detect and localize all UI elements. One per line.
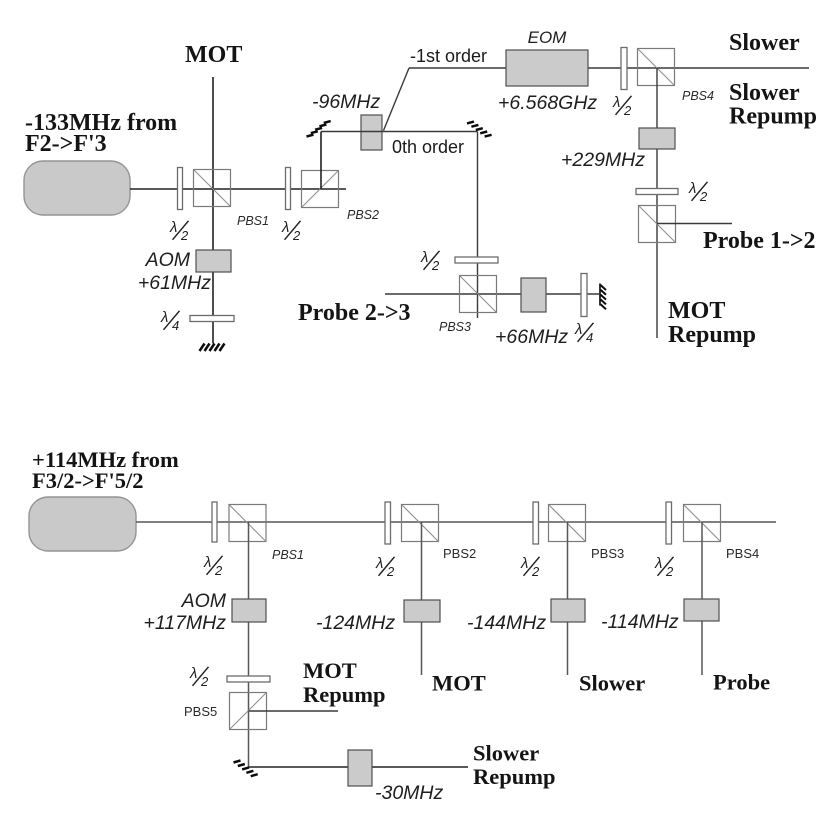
svg-text:MOT: MOT <box>432 671 486 696</box>
wire Probe 1->2 output <box>657 223 732 225</box>
wire -1st order diagonal <box>384 68 410 131</box>
label -133MHz from F2->F'3 <box>25 110 177 157</box>
svg-text:λ: λ <box>375 555 383 572</box>
label PBS4 (bottom) <box>726 546 759 561</box>
label 0th order <box>392 137 464 157</box>
waveplate WPb4 half-wave <box>666 502 672 544</box>
svg-text:4: 4 <box>586 330 593 345</box>
label -1st order <box>410 46 487 66</box>
svg-text:-96MHz: -96MHz <box>312 91 381 113</box>
mirror M5 (45deg bottom left) <box>234 761 258 777</box>
waveplate WPb1 half-wave <box>212 502 217 542</box>
wire MOT Repump output (bottom) <box>249 710 339 712</box>
label +6.568GHz <box>498 92 597 114</box>
AOM A2 -96MHz <box>361 115 382 150</box>
label lambda/2 (WP2) <box>281 219 301 243</box>
wire PBS4 down <box>656 68 658 338</box>
waveplate WP2 half-wave <box>286 168 291 210</box>
label Probe 2->3 <box>298 300 411 326</box>
label PBS1 <box>237 214 269 228</box>
svg-text:-30MHz: -30MHz <box>375 782 444 804</box>
svg-text:F3/2->F'5/2: F3/2->F'5/2 <box>32 468 144 493</box>
wire main beam L2 <box>136 521 776 523</box>
svg-text:Probe 2->3: Probe 2->3 <box>298 300 411 326</box>
svg-text:λ: λ <box>169 219 177 236</box>
wire 0th order horizontal <box>321 131 478 133</box>
svg-text:λ: λ <box>520 555 528 572</box>
svg-text:2: 2 <box>623 103 632 118</box>
laser L1 (-133MHz master) <box>24 161 130 215</box>
wire PBS2 down <box>421 522 423 675</box>
label PBS2 (bottom) <box>443 546 476 561</box>
label Slower (bottom output) <box>579 671 645 696</box>
wire PBS3 down <box>567 522 569 675</box>
label -30MHz <box>375 782 444 804</box>
svg-text:λ: λ <box>612 94 620 111</box>
AOM A4 +66MHz <box>521 278 546 312</box>
svg-text:2: 2 <box>180 228 189 243</box>
label Probe 1->2 <box>703 228 816 254</box>
svg-text:+229MHz: +229MHz <box>561 149 645 171</box>
svg-text:-144MHz: -144MHz <box>467 612 546 634</box>
waveplate WPb2 half-wave <box>385 502 391 544</box>
label MOT Repump (top section) <box>668 298 756 348</box>
label PBS3 (bottom) <box>591 546 624 561</box>
svg-text:+6.568GHz: +6.568GHz <box>498 92 597 114</box>
label lambda/2 (above PBS5) <box>189 665 209 689</box>
svg-text:Slower: Slower <box>473 741 539 766</box>
svg-text:PBS1: PBS1 <box>237 214 269 228</box>
PBS2 cube (top) <box>302 171 339 208</box>
svg-text:2: 2 <box>292 228 301 243</box>
label lambda/2 (WPb4) <box>654 555 674 579</box>
label MOT (top output) <box>185 42 242 68</box>
svg-text:MOT: MOT <box>303 658 357 683</box>
svg-text:Probe 1->2: Probe 1->2 <box>703 228 816 254</box>
label lambda/2 (WP5) <box>420 249 440 273</box>
waveplate WP quarter-wave (MOT arm) <box>190 316 234 322</box>
wire main beam L1 <box>130 188 346 190</box>
label AOM +61MHz <box>138 249 211 294</box>
PBS2 cube (bottom) <box>402 505 439 542</box>
svg-text:-114MHz: -114MHz <box>601 611 679 633</box>
AOM A1 +61MHz <box>196 250 231 272</box>
AOM B5 -30MHz <box>348 750 372 786</box>
label MOT Repump (bottom) <box>303 658 386 707</box>
wire 0th order vertical down to PBS3 <box>477 132 479 319</box>
waveplate WPb3 half-wave <box>533 502 539 544</box>
svg-text:λ: λ <box>160 309 168 326</box>
svg-text:PBS2: PBS2 <box>347 208 379 222</box>
label -114MHz <box>601 611 679 633</box>
svg-text:-1st order: -1st order <box>410 46 487 66</box>
svg-text:AOM: AOM <box>181 590 227 612</box>
svg-text:λ: λ <box>281 219 289 236</box>
waveplate WP4 half-wave (horizontal) <box>636 189 678 195</box>
wire MOT beam vertical <box>212 77 214 344</box>
laser L2 (+114MHz master) <box>29 497 136 551</box>
label Probe (bottom output) <box>713 670 770 695</box>
label MOT (bottom output) <box>432 671 486 696</box>
waveplate WP3 half-wave (after EOM) <box>621 48 627 90</box>
mirror M1 (retro below MOT arm) <box>200 344 225 352</box>
wire PBS2 up to mirror <box>320 132 322 190</box>
svg-text:λ: λ <box>203 554 211 571</box>
svg-text:λ: λ <box>189 665 197 682</box>
waveplate WP6 quarter-wave <box>581 274 587 317</box>
PBS cube (Probe 1->2) <box>639 206 676 243</box>
svg-text:+66MHz: +66MHz <box>495 326 568 348</box>
svg-text:Slower: Slower <box>579 671 645 696</box>
label PBS5 <box>184 704 217 719</box>
PBS4 cube (bottom) <box>684 505 721 542</box>
svg-text:PBS3: PBS3 <box>439 320 471 334</box>
label lambda/2 (WP1) <box>169 219 189 243</box>
svg-text:MOT: MOT <box>668 298 725 324</box>
wire -1st order beam to EOM/PBS4 <box>409 67 809 69</box>
mirror M2 (45deg above PBS2) <box>307 121 331 136</box>
AOM B2 -124MHz <box>404 600 440 622</box>
svg-text:Repump: Repump <box>473 764 556 789</box>
AOM A3 +229MHz <box>639 128 675 149</box>
svg-text:2: 2 <box>431 258 440 273</box>
svg-text:2: 2 <box>386 564 395 579</box>
svg-text:+117MHz: +117MHz <box>143 612 226 634</box>
label AOM +117MHz <box>143 590 226 634</box>
PBS1 cube (bottom) <box>229 505 266 542</box>
label +66MHz <box>495 326 568 348</box>
label lambda/2 (WPb1) <box>203 554 223 578</box>
label lambda/2 (WPb3) <box>520 555 540 579</box>
svg-text:Repump: Repump <box>303 682 386 707</box>
svg-text:Slower: Slower <box>729 30 800 56</box>
label PBS3 <box>439 320 471 334</box>
svg-text:λ: λ <box>654 555 662 572</box>
svg-text:2: 2 <box>214 563 223 578</box>
mirror M3 (45deg, 0th order bend) <box>467 122 492 137</box>
svg-text:+61MHz: +61MHz <box>138 272 211 294</box>
wire Probe 2->3 beam <box>385 293 599 295</box>
label PBS2 <box>347 208 379 222</box>
label -96MHz <box>312 91 381 113</box>
PBS4 cube (top) <box>638 49 675 86</box>
svg-text:PBS2: PBS2 <box>443 546 476 561</box>
svg-text:λ: λ <box>688 180 696 197</box>
wire PBS1 down to mirror <box>248 522 250 767</box>
label lambda/4 (MOT arm) <box>160 309 180 333</box>
svg-text:Repump: Repump <box>729 104 817 130</box>
label Slower Repump <box>729 80 817 130</box>
svg-text:2: 2 <box>699 189 708 204</box>
PBS5 cube <box>230 693 267 730</box>
wire Slower Repump beam <box>249 766 468 768</box>
PBS3 cube (top) <box>460 276 497 313</box>
label lambda/2 (WP4) <box>688 180 708 204</box>
PBS3 cube (bottom) <box>549 505 586 542</box>
label lambda/4 (double pass) <box>574 321 594 345</box>
svg-text:λ: λ <box>574 321 582 338</box>
svg-text:-124MHz: -124MHz <box>316 612 395 634</box>
svg-text:EOM: EOM <box>528 28 568 47</box>
label PBS4 <box>682 89 714 103</box>
svg-text:Slower: Slower <box>729 80 800 106</box>
label PBS1 (bottom) <box>272 548 304 562</box>
label +229MHz <box>561 149 645 171</box>
label Slower Repump (bottom) <box>473 741 556 790</box>
svg-text:PBS1: PBS1 <box>272 548 304 562</box>
svg-text:Repump: Repump <box>668 322 756 348</box>
svg-text:λ: λ <box>420 249 428 266</box>
label -124MHz <box>316 612 395 634</box>
svg-text:MOT: MOT <box>185 42 242 68</box>
AOM B3 -144MHz <box>551 599 585 622</box>
label -144MHz <box>467 612 546 634</box>
AOM B4 -114MHz <box>684 599 719 621</box>
label Slower (top right) <box>729 30 800 56</box>
svg-text:2: 2 <box>200 674 209 689</box>
label EOM <box>528 28 568 47</box>
svg-text:Probe: Probe <box>713 670 770 695</box>
svg-text:2: 2 <box>665 564 674 579</box>
label +114MHz from F3/2->F'5/2 <box>32 447 179 493</box>
svg-text:2: 2 <box>531 564 540 579</box>
wire PBS4 down <box>701 522 703 675</box>
mirror M4 (retro, Probe 2->3 arm) <box>600 284 606 310</box>
svg-text:0th order: 0th order <box>392 137 464 157</box>
waveplate WPb half-wave (above PBS5) <box>227 676 270 682</box>
waveplate WP5 half-wave (above PBS3) <box>455 257 498 263</box>
waveplate WP1 half-wave <box>178 168 183 210</box>
svg-text:PBS3: PBS3 <box>591 546 624 561</box>
label lambda/2 (WPb2) <box>375 555 395 579</box>
PBS1 cube (top) <box>194 170 231 207</box>
svg-text:F2->F'3: F2->F'3 <box>25 131 107 157</box>
svg-text:4: 4 <box>172 318 179 333</box>
svg-text:PBS5: PBS5 <box>184 704 217 719</box>
AOM B1 +117MHz <box>232 599 266 622</box>
label lambda/2 (WP3) <box>612 94 632 118</box>
svg-text:PBS4: PBS4 <box>682 89 714 103</box>
svg-text:AOM: AOM <box>145 249 191 271</box>
svg-text:PBS4: PBS4 <box>726 546 759 561</box>
EOM box <box>506 50 588 86</box>
